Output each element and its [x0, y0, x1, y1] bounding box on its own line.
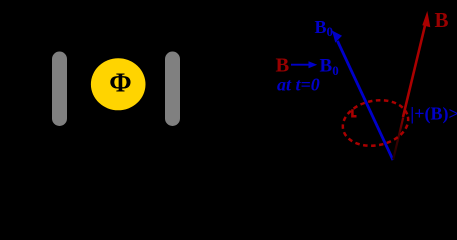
svg-text:Φ: Φ	[109, 67, 131, 97]
svg-text:B: B	[435, 8, 449, 32]
svg-text:B: B	[276, 55, 290, 77]
svg-text:|+(B)>: |+(B)>	[410, 103, 457, 124]
svg-text:at t=0: at t=0	[277, 75, 320, 95]
